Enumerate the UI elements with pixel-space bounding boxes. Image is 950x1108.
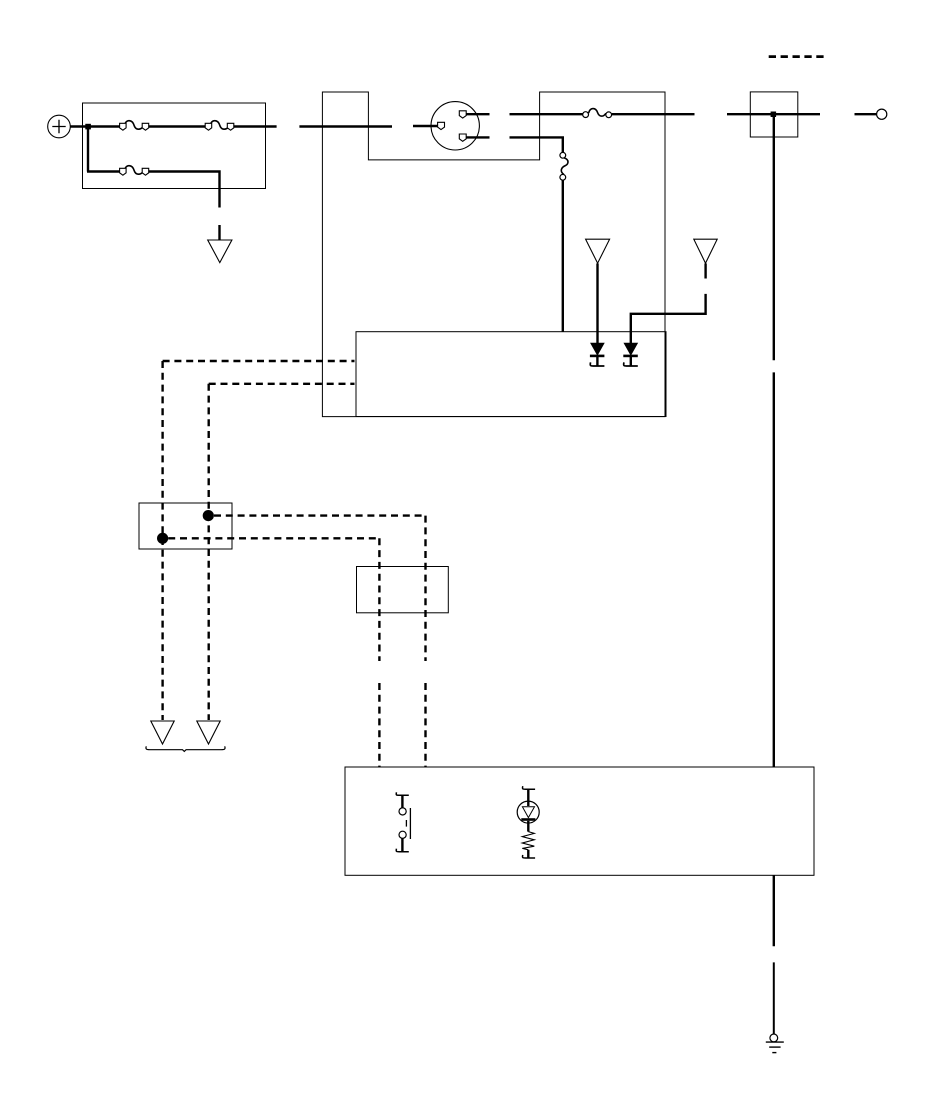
junction node <box>85 124 91 130</box>
diode D1 <box>590 343 605 366</box>
fusible link FL1 <box>560 152 568 180</box>
LED circle <box>517 801 539 823</box>
fuse F3 <box>120 166 149 175</box>
chassis ground G1 <box>766 1034 784 1053</box>
wire ignition IG1 out <box>466 113 489 115</box>
wire to ignition switch <box>413 125 437 127</box>
switch SW1 gap dash <box>405 820 407 827</box>
dashed wire 3 vertical lower <box>424 683 426 767</box>
arrow connector D triangle <box>151 721 174 744</box>
battery B+ terminal <box>48 115 71 138</box>
wire main feed segment 1 <box>88 125 120 127</box>
dashed wire 4 vertical upper <box>378 538 380 661</box>
wire corner from connector C to diode D2 <box>631 294 706 343</box>
dashed wire 4 horizontal <box>168 537 379 539</box>
ignition switch pin IG2 <box>459 134 466 141</box>
switch SW1 top terminal bar <box>396 792 409 795</box>
dashed wire 4 vertical lower <box>378 683 380 767</box>
wire IG1 run segment 2 <box>612 113 695 115</box>
arrow connector C stem <box>704 263 706 278</box>
resistor bottom lead <box>527 850 529 858</box>
long vertical wire segment 4 <box>773 962 775 1034</box>
LED top terminal bar <box>522 786 535 789</box>
ignition switch circle <box>431 102 479 150</box>
connector group bracket <box>146 746 225 751</box>
inline connector box <box>357 567 449 613</box>
wire from F3 down out of fuse box <box>149 172 220 208</box>
dashed wire 1 horizontal <box>163 360 355 362</box>
wire main feed segment 3 <box>234 125 277 127</box>
splice dot B <box>157 533 168 544</box>
LED lead to resistor <box>527 821 529 832</box>
dashed harness marker top right <box>769 55 824 58</box>
wire through junction block <box>727 113 820 115</box>
ignition switch pin BAT <box>438 122 445 129</box>
arrow connector E triangle <box>197 721 220 744</box>
switch SW1 bottom terminal bar <box>396 849 409 852</box>
wire IG1 run <box>510 113 583 115</box>
resistor R1 <box>522 832 534 850</box>
arrow connector A stem <box>218 225 220 240</box>
fuse box (dash panel) <box>83 103 266 189</box>
dashed wire 2 horizontal <box>209 383 355 385</box>
circuit breaker CB1 <box>583 109 612 118</box>
wire main feed segment 2 <box>149 125 206 127</box>
dashed wire 3 vertical upper <box>424 516 426 661</box>
wire from FL1 down to amplifier box <box>562 180 564 332</box>
wire main feed segment 4 <box>299 125 392 127</box>
LED cathode bar <box>521 818 535 821</box>
arrow connector C triangle <box>694 239 717 263</box>
ring terminal <box>877 109 887 119</box>
wire battery to fuse box <box>70 125 88 127</box>
LED triangle <box>522 807 534 818</box>
splice dot A <box>203 510 214 521</box>
dashed wire 3 horizontal <box>214 514 426 516</box>
amplifier box <box>356 332 666 417</box>
switch SW1 top contact <box>399 808 406 815</box>
fuse F1 <box>120 121 149 130</box>
switch SW1 top lead <box>401 795 403 808</box>
fuse F2 <box>205 121 234 130</box>
arrow connector A triangle <box>208 240 232 263</box>
relay connector box <box>139 503 232 549</box>
wire from arrow B to diode D1 <box>596 263 598 343</box>
junction block box <box>750 92 798 137</box>
engine compartment box outline with notch <box>322 92 665 417</box>
dashed wire 2 vertical <box>207 384 209 720</box>
LED bottom terminal bar <box>522 855 535 858</box>
control unit box <box>345 767 814 875</box>
wire branch down from junction <box>87 126 120 172</box>
wire ignition IG2 out <box>466 136 489 138</box>
wire stub to terminal <box>855 113 877 115</box>
arrow connector B triangle <box>586 239 610 263</box>
long vertical wire segment 2 <box>773 372 775 767</box>
wire IG2 run with corner down <box>510 137 563 152</box>
long vertical wire segment 3 <box>773 875 775 946</box>
diode D2 <box>623 343 638 366</box>
switch SW1 bottom lead <box>401 838 403 851</box>
dashed wire 1 vertical <box>161 361 163 720</box>
switch SW1 bottom contact <box>399 831 406 838</box>
switch SW1 blade <box>409 808 411 839</box>
ignition switch pin IG1 <box>459 111 466 118</box>
long vertical wire segment 1 <box>773 114 775 360</box>
junction node dot <box>771 112 777 118</box>
LED top lead <box>527 789 529 806</box>
